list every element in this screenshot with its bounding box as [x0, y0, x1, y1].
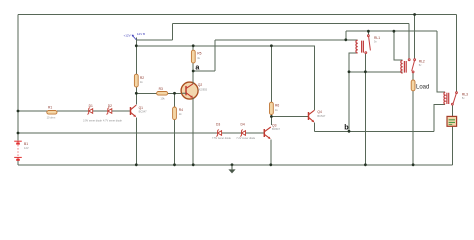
svg-text:Q2: Q2 [198, 83, 203, 87]
svg-text:D2: D2 [108, 104, 112, 108]
resistor R4 [173, 107, 184, 120]
wire Q4 emitter to b row [314, 122, 316, 131]
wire mid rail y133 [18, 132, 264, 134]
zener diode D3 [216, 130, 221, 137]
power terminal 12V [124, 32, 146, 40]
wire stub x346 [345, 31, 347, 40]
wire H2 rail y23 [173, 23, 410, 25]
svg-text:4.7V zener diode: 4.7V zener diode [103, 120, 123, 123]
wire Load bottom down [412, 91, 414, 165]
svg-text:D1: D1 [89, 104, 93, 108]
wire Q1 collector [135, 93, 137, 104]
svg-text:B1: B1 [24, 142, 28, 146]
wire node a link y71 [193, 70, 215, 72]
svg-text:R4: R4 [179, 108, 183, 112]
zener diode D1 [87, 108, 92, 115]
svg-text:b: b [344, 123, 349, 132]
transistor Q2 [181, 82, 207, 99]
wire R2 bottom to junction [135, 87, 137, 93]
relay RL1 switch [365, 35, 371, 54]
svg-text:D4: D4 [241, 123, 245, 127]
wire R6 column x271 [270, 46, 272, 125]
svg-text:R5: R5 [197, 52, 201, 56]
svg-text:MJ2955: MJ2955 [198, 87, 208, 91]
svg-text:R3: R3 [159, 87, 163, 91]
svg-text:D3: D3 [216, 123, 220, 127]
svg-text:R6: R6 [275, 104, 279, 108]
svg-text:Q4: Q4 [317, 110, 322, 114]
resistor R5 [191, 50, 201, 63]
wire R3 row y93 [136, 92, 182, 94]
wire D row y111 [18, 110, 131, 112]
svg-text:12V B: 12V B [137, 32, 145, 36]
Load resistor [411, 80, 429, 91]
resistor R6 [270, 102, 280, 114]
wire left rail V x18 [17, 15, 19, 134]
wire top rail H1 [18, 14, 457, 16]
transistor Q4 [309, 110, 315, 122]
wire node a column x193 [192, 46, 194, 83]
wire RL2 switch left pin x409 [408, 24, 410, 59]
wire V x172 [172, 24, 174, 41]
wire bottom rail [18, 164, 452, 166]
wire Q4 collector column x314 [314, 46, 316, 110]
load box component [447, 116, 457, 126]
svg-text:RL3: RL3 [462, 92, 468, 96]
svg-text:+12V: +12V [124, 33, 131, 37]
relay RL3 switch [452, 92, 458, 105]
transistor Q3 [264, 127, 271, 139]
wire RL2 switch pivot x414 [414, 15, 416, 59]
svg-text:Q1: Q1 [139, 106, 144, 110]
svg-text:BC547: BC547 [139, 110, 147, 114]
wire H6 rail y31 [346, 30, 437, 32]
wire right rail x456 [456, 15, 458, 92]
relay RL2 coil [401, 60, 406, 73]
wire RL3 coil return [434, 104, 445, 131]
svg-text:BC547: BC547 [272, 127, 280, 131]
wire Q1 emitter [135, 117, 137, 164]
svg-text:3.9V zener diode: 3.9V zener diode [83, 120, 103, 123]
wire terminal drop x136 [135, 38, 137, 75]
resistor R2 [134, 74, 144, 87]
wire b row y131 [315, 130, 435, 132]
svg-text:Q3: Q3 [272, 123, 277, 127]
wire battery top stub [17, 133, 19, 140]
relay RL1 coil [356, 40, 363, 53]
svg-text:RL1: RL1 [374, 36, 380, 40]
svg-text:R1: R1 [48, 106, 52, 110]
wire Q4 base row y116 [271, 116, 308, 118]
wire Q3 emitter down [270, 140, 272, 165]
wire R4 column x174 [174, 93, 176, 165]
wire x215 drop [214, 40, 216, 71]
wire RL3 contact to box [451, 105, 453, 116]
wire RL1 switch pin [367, 31, 369, 35]
wire H4 rail y46 [136, 45, 314, 47]
svg-text:12V: 12V [24, 146, 29, 150]
battery B1 [14, 140, 22, 159]
wire RL2 contact to Load [412, 73, 414, 80]
ground [228, 165, 235, 174]
svg-text:10k: 10k [160, 97, 165, 101]
transistor Q1 [131, 105, 137, 117]
wire RL3 coil feed [437, 31, 445, 92]
wire coil common y72 [349, 71, 403, 73]
wire H3 rail y40 [215, 39, 358, 41]
svg-text:Load: Load [416, 84, 429, 90]
svg-text:10 ohm: 10 ohm [47, 115, 56, 119]
wire Q2 emitter down [192, 99, 194, 165]
relay RL2 switch [408, 59, 415, 73]
svg-text:7.2V zener diode: 7.2V zener diode [236, 137, 256, 140]
wire x365 down to ground rail [364, 53, 366, 165]
wire box bottom down [451, 127, 453, 165]
svg-text:R2: R2 [140, 76, 144, 80]
wire RL1 coil return x349 [349, 53, 358, 131]
resistor R3 [157, 87, 168, 100]
relay RL3 coil [444, 92, 449, 104]
svg-text:BC547: BC547 [317, 114, 325, 118]
zener diode D4 [240, 130, 245, 137]
resistor R1 [47, 106, 57, 120]
wire battery bottom stub [17, 161, 19, 165]
wire terminal link y40 [136, 39, 172, 41]
svg-text:7.5V zener diode: 7.5V zener diode [212, 137, 232, 140]
zener diode D2 [106, 108, 111, 115]
wire RL2 coil feed [394, 31, 403, 60]
svg-text:RL2: RL2 [419, 59, 425, 63]
